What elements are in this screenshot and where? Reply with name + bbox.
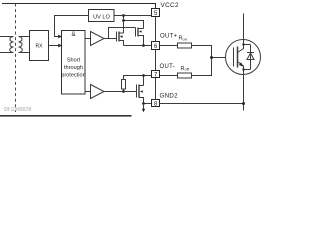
svg-text:OUT-: OUT- (160, 64, 176, 70)
svg-text:Df·2345678: Df·2345678 (4, 107, 31, 113)
svg-text:Short: Short (67, 58, 81, 64)
svg-text:VCC2: VCC2 (161, 2, 179, 9)
svg-text:Ron: Ron (179, 36, 187, 42)
svg-text:protection: protection (61, 73, 86, 79)
svg-text:OUT+: OUT+ (160, 33, 178, 39)
svg-text:Roff: Roff (181, 66, 190, 72)
svg-text:RX: RX (36, 44, 44, 50)
svg-text:through: through (64, 65, 83, 71)
svg-text:UV LO: UV LO (93, 14, 110, 20)
svg-text:GND2: GND2 (160, 92, 179, 99)
svg-text:&: & (71, 32, 75, 38)
